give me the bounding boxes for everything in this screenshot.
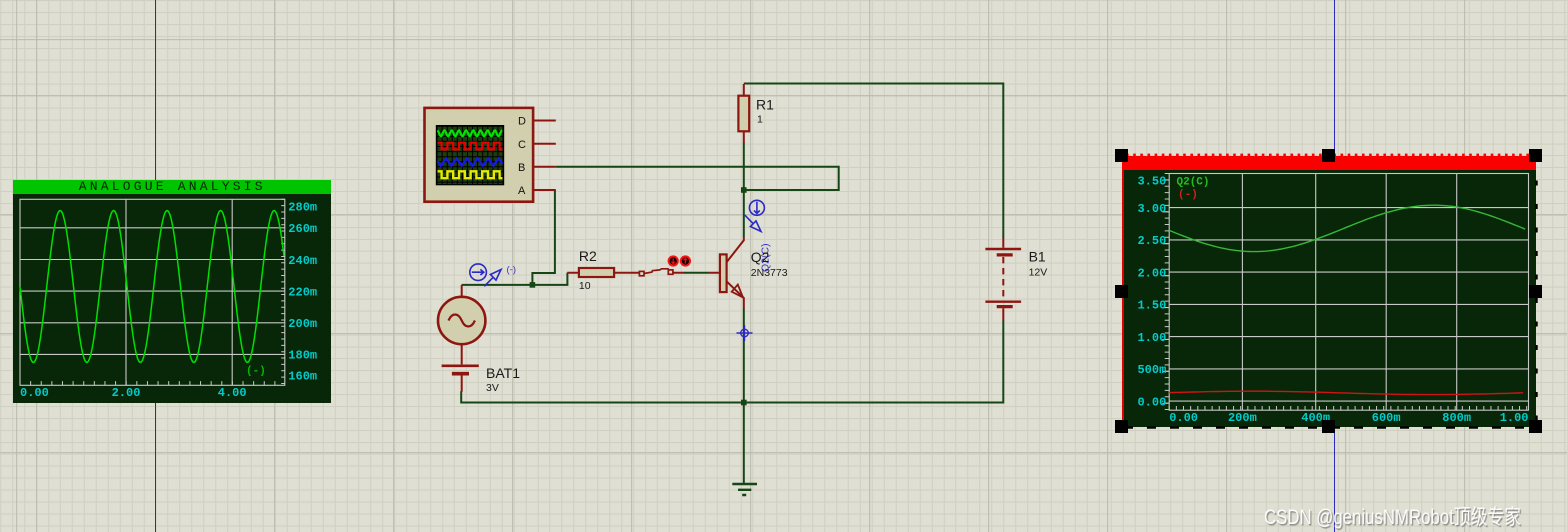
svg-text:10: 10 — [579, 280, 591, 292]
svg-text:240m: 240m — [288, 254, 317, 268]
svg-text:B1: B1 — [1029, 249, 1046, 265]
svg-text:(-): (-) — [507, 264, 517, 275]
svg-text:160m: 160m — [288, 370, 317, 384]
svg-text:280m: 280m — [288, 201, 317, 215]
svg-text:3V: 3V — [486, 382, 499, 394]
svg-text:12V: 12V — [1029, 266, 1048, 278]
svg-text:R1: R1 — [756, 97, 774, 113]
svg-text:C: C — [518, 139, 526, 151]
svg-text:1: 1 — [757, 114, 763, 126]
svg-text:R2: R2 — [579, 248, 597, 264]
svg-text:Q2: Q2 — [751, 249, 770, 265]
svg-text:2N3773: 2N3773 — [751, 267, 788, 279]
svg-text:B: B — [518, 162, 525, 174]
svg-text:260m: 260m — [288, 223, 317, 237]
svg-text:BAT1: BAT1 — [486, 365, 520, 381]
svg-text:2.00: 2.00 — [112, 386, 141, 400]
svg-text:D: D — [518, 116, 526, 128]
svg-text:4.00: 4.00 — [218, 386, 247, 400]
svg-text:(-): (-) — [246, 366, 266, 378]
svg-text:220m: 220m — [288, 286, 317, 300]
svg-text:200m: 200m — [288, 318, 317, 332]
svg-text:A: A — [518, 185, 526, 197]
svg-text:0.00: 0.00 — [20, 386, 49, 400]
svg-text:180m: 180m — [288, 349, 317, 363]
